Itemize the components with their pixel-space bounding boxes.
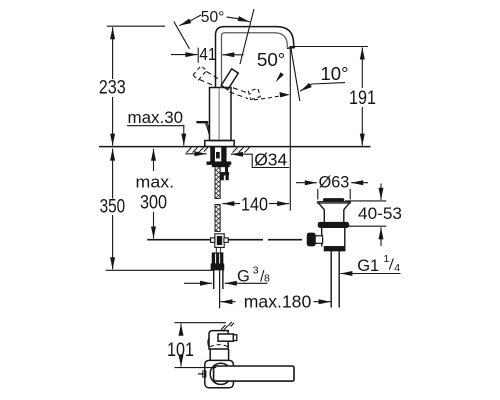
bottom view: spout section box xyxy=(209,331,228,349)
lever handle (front view) xyxy=(221,69,238,90)
svg-text:G: G xyxy=(237,268,250,286)
svg-text:50°: 50° xyxy=(257,50,286,70)
svg-text:G1: G1 xyxy=(357,257,379,275)
label max.30 leader arrow to deck xyxy=(183,126,185,146)
flexible supply hose upper xyxy=(215,167,220,199)
swivel arc dashed xyxy=(254,95,286,100)
dimension 101 bottom extension line xyxy=(175,367,217,369)
faucet body (front view) xyxy=(210,88,232,141)
svg-text:191: 191 xyxy=(349,88,376,109)
drain rod ball joint knob xyxy=(307,233,315,246)
swivel boundary line left xyxy=(174,22,190,49)
dimension 40-53 top reference line xyxy=(345,200,386,202)
50 degrees mid arrowhead xyxy=(276,72,284,82)
dimension diameter 63 arrows xyxy=(296,182,317,184)
swivel arc arrowhead right xyxy=(280,92,291,97)
10 degrees leader arrow xyxy=(312,83,345,84)
label G 3/8 fraction slash xyxy=(261,270,264,282)
svg-text:233: 233 xyxy=(99,78,126,99)
internal pipe hint inside body xyxy=(218,89,220,140)
svg-text:Ø63: Ø63 xyxy=(319,172,350,191)
svg-text:Ø34: Ø34 xyxy=(254,150,287,170)
svg-text:10°: 10° xyxy=(321,64,349,84)
spout outlet face xyxy=(287,47,295,50)
deck hatching right xyxy=(233,147,250,152)
dimension 233 line with arrows xyxy=(112,27,114,79)
deck hatching left xyxy=(187,147,208,152)
dashed rotated spout right xyxy=(230,88,251,99)
drain body xyxy=(322,228,345,247)
dashed rotated spout left xyxy=(200,72,219,86)
dimension 41 extension line xyxy=(197,48,199,63)
drain rod coupling xyxy=(315,236,323,244)
dimension 40-53 bottom reference line xyxy=(349,225,386,227)
deck / mounting surface line xyxy=(99,146,371,148)
pop-up rod stub xyxy=(226,167,228,173)
svg-text:4: 4 xyxy=(394,262,400,274)
label diameter 34 arrows xyxy=(186,153,207,155)
dimension 101 arrows xyxy=(180,324,182,334)
label max.30 underline xyxy=(127,125,185,127)
G 3/8 connector flange xyxy=(211,264,224,270)
drain pop-up plug seal band xyxy=(323,198,344,201)
svg-text:140: 140 xyxy=(241,195,268,215)
pop-up rod knob (front view) xyxy=(197,121,207,123)
bottom view: lever bar xyxy=(214,366,294,381)
drain tailpipe xyxy=(330,251,332,308)
drain flange top plate xyxy=(318,202,351,203)
dimension 233 top reference line xyxy=(107,25,165,27)
dimension G 3/8 arrows xyxy=(184,282,212,284)
drain lower nut band xyxy=(324,247,345,251)
label G 3/8 text xyxy=(237,265,270,286)
dimension 40-53 bottom arrow xyxy=(380,227,382,246)
50 degrees top left leader arrow xyxy=(191,15,202,21)
bottom view: left silhouette arc xyxy=(208,338,209,348)
bottom view: lever hub circle xyxy=(210,363,231,384)
backnut plate xyxy=(207,162,231,164)
under-deck shank left bar xyxy=(211,147,215,161)
svg-text:8: 8 xyxy=(264,273,270,285)
svg-text:350: 350 xyxy=(100,197,126,218)
50 degrees top right leader arrow xyxy=(227,17,240,19)
drain flange gasket xyxy=(318,222,348,227)
outlet 10 degree tilted line xyxy=(291,47,300,101)
svg-text:3: 3 xyxy=(253,265,259,277)
G 3/8 connector nut xyxy=(212,253,223,264)
under-deck shank center stud xyxy=(217,153,220,158)
label G 1 1/4 text xyxy=(357,253,400,275)
bottom view: spout break marks xyxy=(221,322,234,331)
supply pipe centerline extension xyxy=(219,270,221,309)
dimension 40-53 top arrow xyxy=(380,184,382,200)
label diameter 34 box xyxy=(248,154,290,167)
label G 1 1/4 arrow xyxy=(340,273,400,275)
bottom view: base rounded square xyxy=(205,360,234,387)
svg-text:40-53: 40-53 xyxy=(358,205,402,223)
bottom view: aerator stub xyxy=(218,334,233,341)
drain flange tapered neck xyxy=(319,203,350,222)
dashed rotated outlet right xyxy=(248,88,260,99)
svg-text:1: 1 xyxy=(383,253,389,265)
svg-text:max.30: max.30 xyxy=(128,109,184,127)
dimension max.300 line with arrows xyxy=(153,149,155,171)
dimension 140 arrows xyxy=(222,203,240,205)
svg-text:max.180: max.180 xyxy=(244,291,312,311)
bottom view: pop-up knob xyxy=(198,373,205,375)
rod cross fitting xyxy=(215,234,224,248)
flexible supply hose lower xyxy=(215,205,220,232)
pop-up rod clevis xyxy=(221,173,229,175)
horizontal pop-up linkage rod xyxy=(147,239,263,241)
svg-text:50°: 50° xyxy=(201,9,225,26)
dimension 191 top reference line xyxy=(290,46,369,48)
label G 1 1/4 fraction slash xyxy=(389,259,393,270)
dimension 101 top extension line xyxy=(175,322,227,324)
faucet base plate xyxy=(205,141,234,147)
swivel boundary line right xyxy=(240,9,254,64)
dimension diameter 63 extension lines xyxy=(317,189,319,200)
supply pipe lines xyxy=(213,270,215,289)
dimension 41 arrows xyxy=(171,54,197,56)
svg-text:101: 101 xyxy=(167,340,194,361)
hose neck to connector xyxy=(216,247,220,253)
svg-text:max.: max. xyxy=(136,174,175,192)
dimension max.180 arrows xyxy=(220,301,235,303)
bottom view: body mid section xyxy=(210,349,228,361)
dashed rotated outlet left xyxy=(193,66,207,80)
svg-text:300: 300 xyxy=(140,192,167,213)
bottom view: hidden dashed arc xyxy=(210,345,228,347)
under-deck shank right bar xyxy=(222,147,226,161)
spout tube xyxy=(216,27,295,88)
svg-text:41: 41 xyxy=(199,44,216,64)
dimension 191 line with arrows xyxy=(361,48,363,89)
dimension 350 bottom reference line xyxy=(106,269,214,271)
backnut washer xyxy=(212,165,229,167)
outlet axis vertical reference line xyxy=(289,47,291,211)
dimension 350 line with arrows xyxy=(112,149,114,199)
